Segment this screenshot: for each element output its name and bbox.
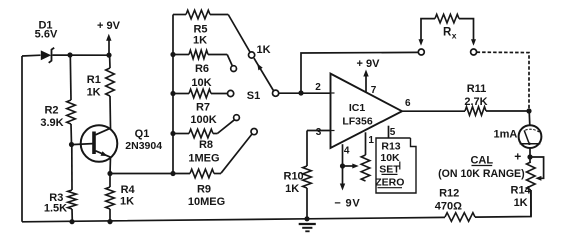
svg-text:1.5K: 1.5K [44,203,67,215]
svg-text:1K: 1K [120,196,134,208]
svg-text:10K: 10K [380,152,400,164]
svg-text:Q1: Q1 [135,128,150,140]
svg-text:2N3904: 2N3904 [125,140,162,152]
svg-text:S1: S1 [247,90,260,102]
svg-text:7: 7 [371,85,377,96]
svg-text:SET: SET [379,163,400,175]
svg-text:1K: 1K [256,44,270,56]
svg-text:R8: R8 [199,139,213,151]
svg-text:1K: 1K [514,197,528,209]
svg-text:3.9K: 3.9K [40,117,63,129]
svg-text:R4: R4 [121,184,136,196]
svg-text:R14: R14 [511,185,532,197]
svg-text:R9: R9 [197,183,211,195]
svg-text:LF356: LF356 [342,116,373,128]
svg-text:ZERO: ZERO [375,177,404,189]
svg-text:R10: R10 [284,170,304,182]
svg-text:R2: R2 [44,104,58,116]
svg-text:5.6V: 5.6V [35,28,58,40]
svg-text:R6: R6 [195,63,209,75]
svg-text:− 9V: − 9V [334,198,360,210]
svg-text:+ 9V: + 9V [97,20,121,32]
svg-text:4: 4 [344,146,350,157]
svg-text:R7: R7 [196,102,210,114]
svg-text:R1: R1 [87,74,101,86]
svg-text:10K: 10K [191,77,211,89]
svg-text:2.7K: 2.7K [464,96,487,108]
svg-text:+: + [514,149,521,163]
svg-text:IC1: IC1 [349,102,366,114]
svg-text:100K: 100K [190,114,216,126]
svg-text:1K: 1K [285,183,299,195]
svg-text:R11: R11 [467,83,487,95]
svg-text:1K: 1K [193,35,207,47]
svg-text:1: 1 [368,135,374,146]
svg-text:1mA: 1mA [493,128,517,140]
svg-text:+ 9V: + 9V [357,58,381,70]
svg-text:10MEG: 10MEG [188,196,225,208]
svg-text:R: R [443,27,452,39]
svg-text:1K: 1K [87,87,101,99]
svg-text:3: 3 [316,127,322,138]
svg-text:R13: R13 [381,141,400,153]
svg-text:R5: R5 [193,23,207,35]
svg-text:5: 5 [390,127,396,138]
svg-text:6: 6 [405,98,411,109]
svg-text:2: 2 [315,82,321,93]
svg-text:470Ω: 470Ω [435,201,462,213]
svg-text:R12: R12 [439,187,459,199]
svg-text:1MEG: 1MEG [188,152,219,164]
svg-text:x: x [452,30,457,40]
svg-text:(ON 10K RANGE): (ON 10K RANGE) [438,168,525,180]
svg-text:CAL: CAL [470,154,493,166]
